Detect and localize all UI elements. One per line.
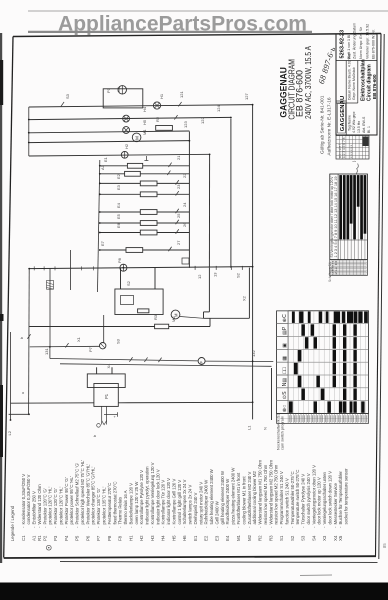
svg-text:123: 123 — [183, 121, 188, 128]
svg-text:Bl. 1: Bl. 1 — [367, 126, 371, 133]
svg-text:condensator 0,33uF/250 V: condensator 0,33uF/250 V — [26, 474, 31, 524]
svg-text:R3: R3 — [268, 535, 273, 541]
svg-text:S3: S3 — [301, 535, 306, 541]
svg-text:Temperaturwähler 50-275°C: Temperaturwähler 50-275°C — [290, 471, 295, 525]
svg-text:L1: L1 — [247, 425, 252, 430]
svg-text:132: 132 — [251, 350, 256, 357]
svg-text:A1: A1 — [100, 164, 105, 170]
svg-text:Widerstand 120 Ohm: Widerstand 120 Ohm — [37, 484, 42, 525]
svg-text:Entstörfilter 250 V: Entstörfilter 250 V — [32, 491, 37, 525]
svg-text:control 1 light grill 120 V: control 1 light grill 120 V — [177, 480, 182, 525]
svg-text:M2: M2 — [171, 316, 176, 322]
svg-text:26: 26 — [182, 222, 187, 227]
svg-text:P7: P7 — [88, 346, 93, 352]
svg-text:X4: X4 — [333, 535, 338, 541]
svg-text:Schalterlampen 2x 24 V: Schalterlampen 2x 24 V — [182, 479, 187, 524]
svg-text:P8: P8 — [107, 535, 112, 541]
svg-text:▤P: ▤P — [282, 326, 288, 335]
svg-text:E6: E6 — [116, 222, 121, 228]
svg-text:Frontlüfterblaser M1 in front: Frontlüfterblaser M1 in front — [236, 472, 241, 524]
svg-text:Norm Urspr. Ers. für: Norm Urspr. Ers. für — [359, 26, 363, 59]
svg-text:Verriegelungsmotor oben 120 V: Verriegelungsmotor oben 120 V — [311, 465, 316, 525]
svg-text:N▤: N▤ — [282, 378, 288, 387]
svg-text:E5: E5 — [116, 213, 121, 219]
svg-text:M1: M1 — [142, 129, 147, 135]
svg-text:85: 85 — [382, 543, 387, 548]
svg-text:S3: S3 — [115, 338, 120, 344]
svg-text:H1: H1 — [128, 535, 133, 541]
svg-text:temperature switch 50-275°C: temperature switch 50-275°C — [295, 469, 300, 525]
svg-text:Widerstand langsam M2 750 Ohm: Widerstand langsam M2 750 Ohm — [268, 460, 273, 525]
svg-text:oven lamp 120 V 25 W: oven lamp 120 V 25 W — [134, 481, 139, 525]
svg-text:Protektor 120°C 'G': Protektor 120°C 'G' — [42, 488, 47, 524]
svg-text:Rohrheizkörper 2400 W: Rohrheizkörper 2400 W — [204, 479, 209, 525]
svg-text:H5: H5 — [171, 535, 176, 541]
svg-text:E4: E4 — [116, 202, 121, 208]
svg-text:122: 122 — [200, 117, 205, 124]
svg-text:H2: H2 — [124, 143, 129, 149]
svg-text:X5: X5 — [338, 535, 343, 541]
svg-text:▦: ▦ — [282, 356, 288, 361]
svg-text:resistor low speed M1 750 Ohm: resistor low speed M1 750 Ohm — [263, 464, 268, 524]
svg-text:P6: P6 — [85, 535, 90, 541]
svg-text:P4: P4 — [64, 535, 69, 541]
svg-text:F: F — [199, 361, 204, 364]
svg-text:indicator light door 120 V: indicator light door 120 V — [166, 478, 171, 525]
svg-text:EB 876-600 W.-Nr.: EB 876-600 W.-Nr. — [372, 29, 376, 59]
svg-text:socket for temperature sensor: socket for temperature sensor — [344, 468, 349, 525]
svg-text:25: 25 — [176, 213, 181, 218]
svg-text:fixed thermostat 270°C: fixed thermostat 270°C — [112, 481, 117, 525]
svg-text:pizza heating element 2400 W: pizza heating element 2400 W — [231, 467, 236, 525]
svg-text:thermo relais 16 A: thermo relais 16 A — [123, 490, 128, 524]
svg-text:Kontrollampe Grill 120 V: Kontrollampe Grill 120 V — [171, 479, 176, 525]
svg-text:rotary spit motor 240 V: rotary spit motor 240 V — [198, 482, 203, 525]
svg-text:S2: S2 — [290, 535, 295, 541]
svg-text:C1: C1 — [116, 86, 121, 92]
svg-text:H2: H2 — [139, 535, 144, 541]
svg-text:12: 12 — [197, 274, 202, 279]
svg-text:H6: H6 — [182, 535, 187, 541]
svg-text:N: N — [263, 427, 268, 430]
svg-text:H4: H4 — [161, 535, 166, 541]
svg-text:P7: P7 — [96, 535, 101, 541]
svg-text:additional cooling blower M2: additional cooling blower M2 — [252, 471, 257, 525]
svg-text:22: 22 — [182, 173, 187, 178]
svg-text:□□: □□ — [282, 366, 288, 373]
svg-text:124: 124 — [216, 105, 221, 112]
svg-text:1 2 3 4 5 6 7 8: 1 2 3 4 5 6 7 8 — [342, 137, 346, 158]
svg-text:Protektor 120°C 'G': Protektor 120°C 'G' — [53, 488, 58, 524]
svg-text:Aufheiznorm Nr. E-L317-16: Aufheiznorm Nr. E-L317-16 — [326, 97, 332, 155]
svg-text:S2: S2 — [236, 272, 241, 278]
svg-text:protektor 120°C 'HL': protektor 120°C 'HL' — [48, 487, 53, 525]
svg-text:Tag Name: Tag Name — [348, 115, 352, 131]
svg-text:X1: X1 — [76, 336, 81, 342]
svg-text:grill heating element 2400 W: grill heating element 2400 W — [220, 470, 225, 524]
svg-text:Kontrollampe Verriegelung 120: Kontrollampe Verriegelung 120 V — [150, 462, 155, 524]
svg-text:door lock motor up 120 V: door lock motor up 120 V — [317, 477, 322, 524]
svg-text:P3: P3 — [53, 535, 58, 541]
svg-text:5263-92-23: 5263-92-23 — [340, 30, 346, 59]
svg-text:X3: X3 — [322, 535, 327, 541]
svg-text:Zust. Änderung Datum: Zust. Änderung Datum — [353, 23, 357, 59]
svg-text:21: 21 — [176, 155, 181, 160]
svg-text:Drehspieß 240 V: Drehspieß 240 V — [193, 493, 198, 525]
svg-text:E2: E2 — [204, 535, 209, 541]
svg-text:function switch S1 240 V: function switch S1 240 V — [284, 478, 289, 524]
svg-text:Protektor Power 95°C 'G': Protektor Power 95°C 'G' — [64, 477, 69, 524]
svg-text:protektor 120°C 'HL': protektor 120°C 'HL' — [58, 487, 63, 525]
svg-text:Kontrollampe Pyrolyse 120 V: Kontrollampe Pyrolyse 120 V — [139, 470, 144, 525]
svg-text:indicator light pyrolyt. opera: indicator light pyrolyt. operation — [145, 466, 150, 525]
svg-text:Protektor Schnellauf M2 75°C ': Protektor Schnellauf M2 75°C 'G' — [75, 463, 80, 525]
svg-text:R1: R1 — [37, 535, 42, 541]
svg-text:P1: P1 — [106, 87, 111, 93]
svg-text:Messestecker Service: Messestecker Service — [333, 482, 338, 524]
svg-text:P1: P1 — [104, 393, 109, 399]
svg-text:E4: E4 — [225, 535, 230, 541]
svg-text:EB 876-600: EB 876-600 — [372, 74, 377, 99]
svg-text:M: M — [173, 313, 178, 317]
svg-text:Widerstand langsam M1 750 Ohm: Widerstand langsam M1 750 Ohm — [258, 460, 263, 525]
svg-text:E2: E2 — [116, 173, 121, 179]
svg-text:131: 131 — [44, 348, 49, 355]
svg-text:X4: X4 — [106, 363, 111, 369]
svg-text:cam switch program: cam switch program — [281, 416, 285, 450]
svg-text:resistor low speed M2 750 Ohm: resistor low speed M2 750 Ohm — [274, 464, 279, 524]
svg-text:E1: E1 — [193, 535, 198, 541]
svg-text:27: 27 — [176, 240, 181, 245]
svg-text:S4: S4 — [311, 535, 316, 541]
svg-text:H5: H5 — [142, 119, 147, 125]
svg-text:Grill 2400 W: Grill 2400 W — [214, 500, 219, 524]
svg-text:Buchse für Temperaturfühler: Buchse für Temperaturfühler — [338, 471, 343, 525]
svg-text:E3: E3 — [116, 184, 121, 190]
svg-text:protektor changer 85°C 'G'/'HL: protektor changer 85°C 'G'/'HL' — [91, 466, 96, 524]
svg-text:R3: R3 — [153, 314, 158, 320]
svg-text:S3: S3 — [65, 93, 70, 99]
svg-text:⊙S: ⊙S — [282, 391, 288, 399]
svg-text:⊕C: ⊕C — [282, 314, 288, 322]
svg-text:cooling blower M1 in front: cooling blower M1 in front — [241, 476, 246, 525]
svg-text:▣: ▣ — [282, 343, 288, 348]
svg-text:127: 127 — [244, 93, 249, 100]
svg-text:Backofenlampe 120 V: Backofenlampe 120 V — [128, 483, 133, 525]
svg-text:Thermo Relais: Thermo Relais — [118, 496, 123, 524]
svg-text:E7: E7 — [100, 240, 105, 246]
svg-text:4.92 Wlz gepr.: 4.92 Wlz gepr. — [352, 111, 356, 133]
svg-text:M: M — [134, 136, 139, 140]
svg-text:M2: M2 — [247, 534, 252, 541]
svg-text:Zusatzlüfterblaser M2 240 V: Zusatzlüfterblaser M2 240 V — [247, 472, 252, 525]
svg-text:1 2 3 4 5 6 7 8 9 10 11 12 13: 1 2 3 4 5 6 7 8 9 10 11 12 13 14 15 16 1… — [334, 176, 338, 257]
svg-text:Abt. EW-S: Abt. EW-S — [362, 116, 366, 133]
svg-text:protektor high speed M2 75°C ': protektor high speed M2 75°C 'HL' — [80, 460, 85, 525]
svg-text:Verteiler gepr. 13.5.92: Verteiler gepr. 13.5.92 — [366, 24, 370, 59]
svg-text:S2: S2 — [126, 280, 131, 286]
svg-text:Kondensator 0,33uF/250 V: Kondensator 0,33uF/250 V — [21, 474, 26, 525]
svg-text:P8: P8 — [117, 257, 122, 263]
svg-text:Türschalter Pyrolyse 240 V: Türschalter Pyrolyse 240 V — [301, 474, 306, 525]
svg-text:A1: A1 — [32, 535, 37, 541]
svg-text:240V AC, 3700W, 15.5 A: 240V AC, 3700W, 15.5 A — [304, 46, 313, 119]
svg-text:Protektor 135°C 'G': Protektor 135°C 'G' — [96, 488, 101, 524]
svg-text:H3: H3 — [150, 535, 155, 541]
svg-text:P2: P2 — [42, 535, 47, 541]
svg-text:indicator light door lock 120: indicator light door lock 120 V — [155, 469, 160, 524]
svg-text:C1: C1 — [21, 535, 26, 541]
svg-text:E3: E3 — [214, 535, 219, 541]
svg-text:Legende / Legend: Legende / Legend — [10, 505, 15, 541]
svg-text:Festtemperatur 270°C: Festtemperatur 270°C — [107, 482, 112, 525]
svg-text:x: x — [20, 392, 25, 394]
svg-text:door switch pyrolysis 240 V: door switch pyrolysis 240 V — [306, 473, 311, 524]
svg-text:Rundheizkörper 2400 W: Rundheizkörper 2400 W — [225, 478, 230, 525]
svg-text:x x x x x x: x x x x x x — [349, 144, 353, 158]
svg-text:121: 121 — [179, 91, 184, 98]
svg-text:F8: F8 — [118, 535, 123, 541]
svg-text:protektor power 95°C 'HL': protektor power 95°C 'HL' — [69, 476, 74, 524]
svg-text:X2: X2 — [242, 295, 247, 301]
svg-text:13: 13 — [213, 272, 218, 277]
svg-text:R2: R2 — [258, 535, 263, 541]
svg-text:Programmschalter S1 240 V: Programmschalter S1 240 V — [279, 471, 284, 524]
svg-text:24: 24 — [182, 202, 187, 207]
svg-text:M1: M1 — [236, 534, 241, 541]
svg-text:S1: S1 — [279, 535, 284, 541]
svg-text:Gültig ab Serie-Nr. 841-001: Gültig ab Serie-Nr. 841-001 — [319, 95, 325, 154]
svg-text:door lock switch down 120 V: door lock switch down 120 V — [327, 471, 332, 525]
svg-text:⊗○: ⊗○ — [282, 405, 288, 412]
svg-text:H4: H4 — [142, 106, 147, 112]
svg-text:P5: P5 — [75, 535, 80, 541]
svg-text:zu 0: zu 0 — [334, 260, 338, 275]
svg-text:switch lamps 2x 24 V: switch lamps 2x 24 V — [188, 485, 193, 525]
svg-text:R2: R2 — [155, 116, 160, 122]
svg-text:H1: H1 — [159, 93, 164, 99]
svg-text:L2: L2 — [7, 430, 12, 435]
svg-text:Gepr. Norm Maßstab: Gepr. Norm Maßstab — [352, 67, 356, 100]
svg-text:E1: E1 — [103, 156, 108, 162]
svg-text:Protektor Wechsler 85°C 'G'/'H: Protektor Wechsler 85°C 'G'/'HL' — [85, 464, 90, 525]
svg-text:Verriegelungsschalter unten: Verriegelungsschalter unten — [322, 472, 327, 525]
svg-text:23: 23 — [176, 184, 181, 189]
svg-text:Kontrollampe Tür 120 V: Kontrollampe Tür 120 V — [161, 480, 166, 525]
svg-text:tube heating element 2400 W: tube heating element 2400 W — [209, 468, 214, 524]
svg-text:13.5 Hn: 13.5 Hn — [357, 121, 361, 133]
svg-text:protektor 135°C 'HL': protektor 135°C 'HL' — [102, 487, 107, 525]
